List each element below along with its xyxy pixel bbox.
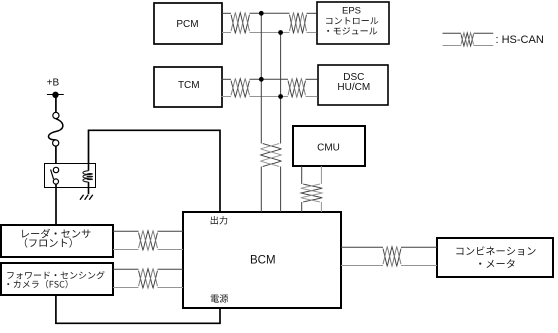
svg-text:EPS: EPS xyxy=(342,6,361,17)
svg-text:BCM: BCM xyxy=(250,254,276,266)
svg-text:TCM: TCM xyxy=(178,80,200,91)
svg-text:+B: +B xyxy=(47,78,60,89)
svg-text:: HS-CAN: : HS-CAN xyxy=(496,34,544,46)
svg-text:PCM: PCM xyxy=(176,19,198,30)
svg-text:CMU: CMU xyxy=(317,143,340,154)
svg-text:HU/CM: HU/CM xyxy=(337,82,370,93)
